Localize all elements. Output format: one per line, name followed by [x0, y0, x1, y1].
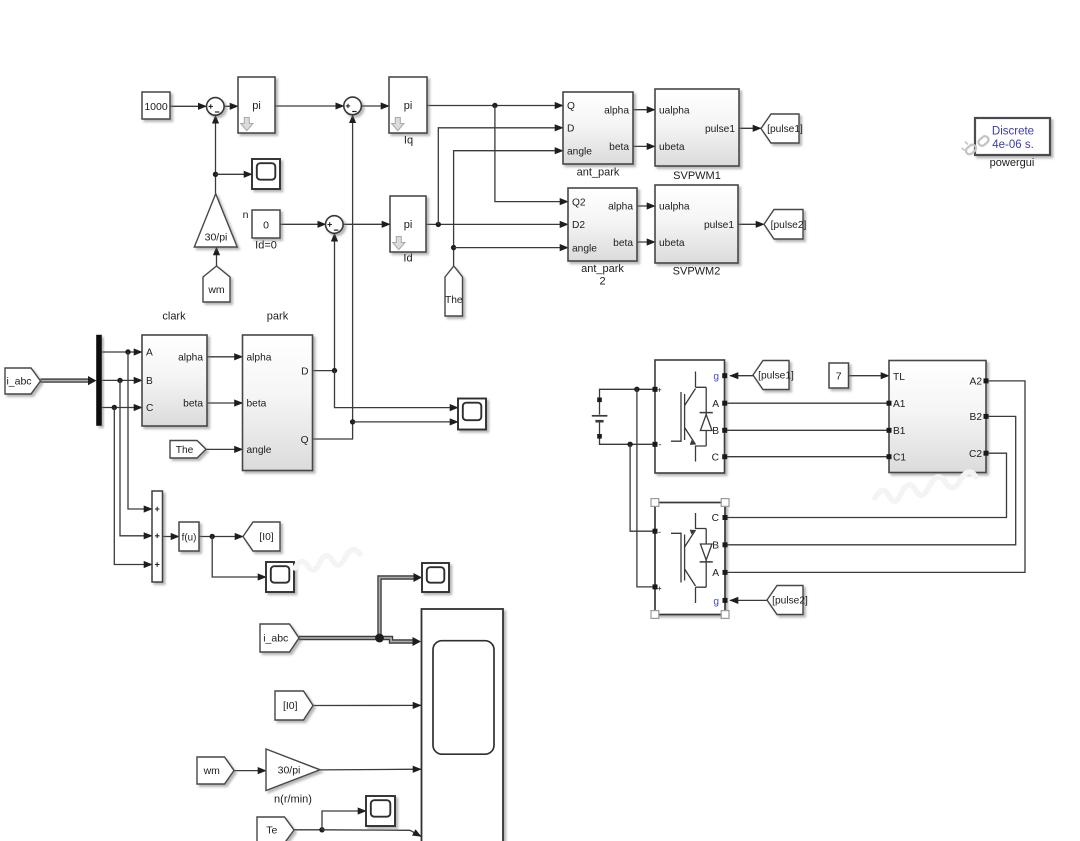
svg-text:Te: Te: [266, 825, 277, 837]
svg-text:beta: beta: [247, 399, 267, 410]
svg-text:-: -: [658, 527, 661, 537]
svg-text:Id=0: Id=0: [255, 240, 277, 252]
svg-text:pi: pi: [404, 100, 413, 112]
svg-text:angle: angle: [572, 243, 597, 254]
svg-text:angle: angle: [567, 146, 592, 157]
svg-text:ualpha: ualpha: [659, 105, 690, 116]
svg-text:Iq: Iq: [404, 135, 413, 147]
svg-text:A: A: [146, 348, 153, 359]
svg-text:f(u): f(u): [182, 533, 197, 544]
svg-text:7: 7: [836, 371, 842, 383]
svg-text:TL: TL: [893, 372, 905, 383]
svg-text:Q: Q: [301, 435, 309, 446]
svg-text:ant_park: ant_park: [581, 263, 624, 275]
svg-text:A2: A2: [970, 377, 983, 388]
svg-text:alpha: alpha: [604, 105, 629, 116]
svg-text:pulse1: pulse1: [705, 124, 735, 135]
svg-text:[pulse2]: [pulse2]: [772, 596, 808, 607]
svg-text:A1: A1: [893, 399, 906, 410]
svg-text:beta: beta: [609, 142, 629, 153]
svg-text:SVPWM1: SVPWM1: [673, 170, 721, 182]
svg-text:wm: wm: [203, 765, 221, 777]
svg-text:clark: clark: [162, 310, 186, 322]
svg-text:ualpha: ualpha: [659, 202, 690, 213]
svg-text:30/pi: 30/pi: [205, 231, 228, 243]
svg-text:A: A: [712, 568, 719, 579]
svg-text:beta: beta: [613, 238, 633, 249]
svg-text:C1: C1: [893, 452, 906, 463]
svg-text:C2: C2: [969, 449, 982, 460]
svg-text:C: C: [146, 403, 153, 414]
svg-text:angle: angle: [247, 445, 272, 456]
svg-text:Q: Q: [567, 101, 575, 112]
svg-text:C: C: [712, 513, 719, 524]
svg-text:ant_park: ant_park: [577, 166, 620, 178]
svg-text:alpha: alpha: [247, 353, 272, 364]
svg-text:[I0]: [I0]: [283, 700, 298, 712]
svg-text:g: g: [713, 596, 719, 607]
svg-text:SVPWM2: SVPWM2: [673, 266, 721, 278]
svg-text:B2: B2: [970, 412, 983, 423]
svg-text:-: -: [659, 439, 662, 449]
svg-text:B1: B1: [893, 426, 906, 437]
svg-text:[I0]: [I0]: [259, 532, 273, 543]
svg-text:30/pi: 30/pi: [278, 765, 301, 777]
svg-text:+: +: [657, 385, 662, 394]
svg-text:The: The: [445, 295, 463, 306]
svg-text:+: +: [657, 584, 662, 593]
svg-text:[pulse1]: [pulse1]: [758, 371, 794, 382]
svg-text:i_abc: i_abc: [263, 633, 288, 645]
svg-text:C: C: [712, 452, 719, 463]
svg-text:2: 2: [599, 276, 605, 288]
svg-text:B: B: [712, 541, 719, 552]
svg-text:alpha: alpha: [178, 353, 203, 364]
svg-text:powergui: powergui: [990, 157, 1035, 169]
svg-text:0: 0: [263, 219, 269, 231]
svg-text:[pulse2]: [pulse2]: [771, 220, 807, 231]
svg-text:park: park: [267, 310, 289, 322]
svg-text:g: g: [713, 372, 719, 383]
svg-text:[pulse1]: [pulse1]: [767, 124, 803, 135]
svg-text:A: A: [712, 399, 719, 410]
svg-text:alpha: alpha: [608, 202, 633, 213]
svg-text:1000: 1000: [144, 101, 168, 113]
svg-text:n(r/min): n(r/min): [274, 794, 312, 806]
svg-text:beta: beta: [183, 399, 203, 410]
svg-text:4e-06 s.: 4e-06 s.: [992, 139, 1034, 151]
svg-text:ubeta: ubeta: [659, 142, 685, 153]
svg-text:B: B: [712, 426, 719, 437]
svg-text:D: D: [567, 124, 574, 135]
svg-text:The: The: [176, 445, 194, 456]
svg-text:D2: D2: [572, 220, 585, 231]
svg-text:D: D: [301, 366, 308, 377]
svg-text:pi: pi: [404, 219, 413, 231]
svg-text:n: n: [243, 209, 249, 221]
svg-text:pulse1: pulse1: [704, 220, 734, 231]
svg-text:B: B: [146, 376, 153, 387]
svg-text:wm: wm: [207, 284, 225, 296]
svg-text:Id: Id: [403, 252, 412, 264]
svg-text:ubeta: ubeta: [659, 238, 685, 249]
svg-text:pi: pi: [252, 100, 261, 112]
svg-text:i_abc: i_abc: [6, 376, 31, 388]
svg-text:Discrete: Discrete: [992, 125, 1034, 137]
svg-text:Q2: Q2: [572, 197, 586, 208]
